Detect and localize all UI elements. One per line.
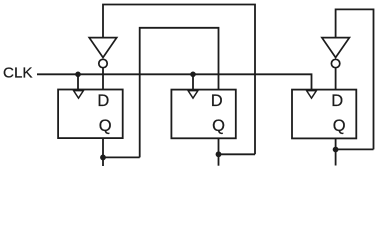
svg-text:Q: Q: [212, 117, 225, 135]
svg-text:Q: Q: [333, 117, 346, 135]
svg-text:D: D: [331, 92, 343, 110]
svg-text:CLK: CLK: [3, 65, 33, 82]
svg-text:Q: Q: [99, 117, 112, 135]
svg-text:D: D: [211, 92, 223, 110]
svg-text:D: D: [97, 92, 109, 110]
